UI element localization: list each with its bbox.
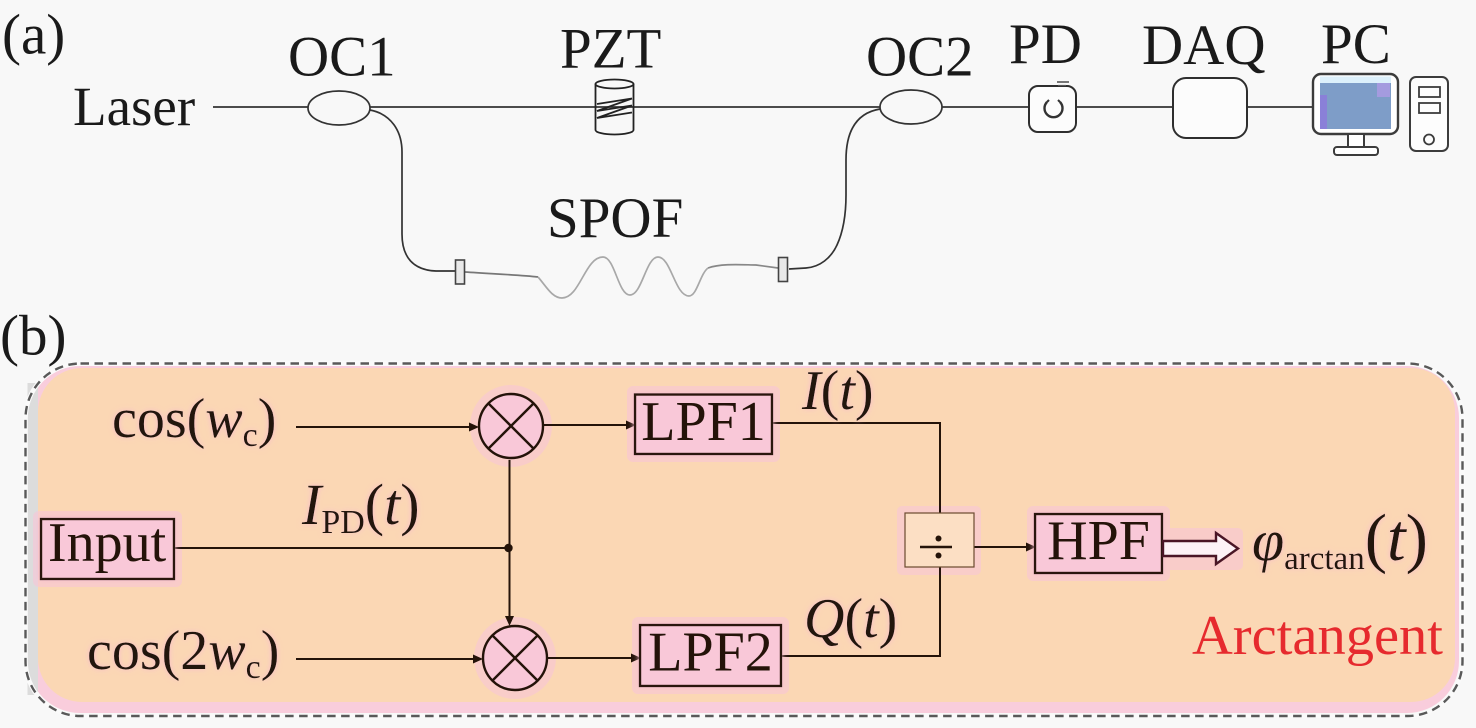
svg-text:Laser: Laser bbox=[73, 76, 195, 137]
svg-text:HPF: HPF bbox=[1047, 510, 1150, 572]
svg-text:PD: PD bbox=[1009, 13, 1082, 76]
svg-text:Input: Input bbox=[48, 512, 167, 574]
svg-text:PZT: PZT bbox=[560, 18, 661, 81]
svg-text:OC1: OC1 bbox=[288, 26, 396, 89]
svg-text:Q(t): Q(t) bbox=[804, 588, 897, 650]
svg-text:DAQ: DAQ bbox=[1142, 14, 1266, 77]
svg-text:LPF2: LPF2 bbox=[648, 622, 773, 684]
svg-text:I(t): I(t) bbox=[801, 360, 874, 422]
svg-text:Arctangent: Arctangent bbox=[1192, 605, 1443, 667]
svg-text:SPOF: SPOF bbox=[547, 187, 683, 250]
svg-text:PC: PC bbox=[1321, 13, 1391, 76]
svg-text:(b): (b) bbox=[0, 305, 66, 368]
svg-text:LPF1: LPF1 bbox=[641, 391, 766, 453]
svg-text:(a): (a) bbox=[2, 4, 65, 67]
svg-text:OC2: OC2 bbox=[866, 26, 974, 89]
